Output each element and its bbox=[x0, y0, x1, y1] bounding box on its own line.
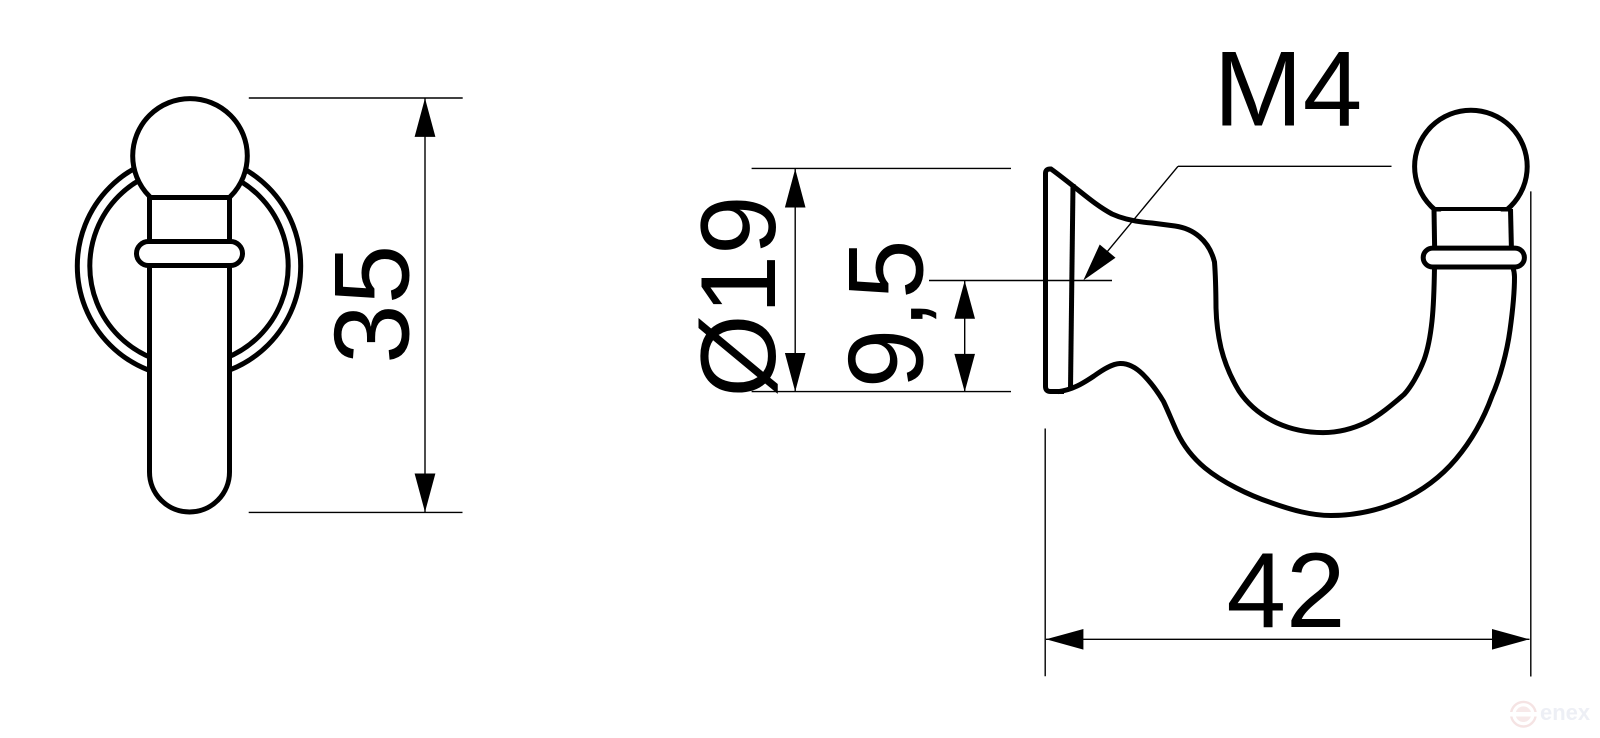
dim 9,5: dimension line bbox=[964, 281, 966, 392]
right view: ball-neck junction line bbox=[1434, 207, 1511, 211]
dim 9,5: axis extension line bbox=[929, 280, 1112, 282]
left view: plate outer circle bbox=[77, 154, 300, 377]
right view: neck erase patch bbox=[1429, 212, 1516, 247]
M4 leader: diagonal bbox=[1086, 166, 1178, 277]
dim 35: dimension line bbox=[424, 98, 426, 512]
dim 9,5: top arrow bbox=[954, 281, 975, 319]
right view: plate inner vertical line bbox=[1071, 184, 1074, 389]
dim 9,5: bottom arrow bbox=[954, 354, 975, 392]
M4 leader: arrowhead bbox=[1083, 245, 1115, 281]
left view: plate inner circle bbox=[90, 167, 288, 365]
right view: ball bbox=[1415, 110, 1528, 223]
svg-text:enex: enex bbox=[1540, 700, 1591, 725]
dim O19: bottom arrow bbox=[785, 353, 806, 392]
watermark: enex logo white bar bbox=[1506, 712, 1541, 717]
dim 35: bottom extension line bbox=[249, 511, 463, 513]
dim 35: bottom arrow bbox=[415, 474, 436, 513]
dim 42: left extension line bbox=[1044, 429, 1046, 677]
left view: ball bbox=[133, 99, 248, 214]
svg-text:Ø19: Ø19 bbox=[678, 195, 798, 397]
svg-text:9,5: 9,5 bbox=[825, 240, 945, 389]
right view: neck left line bbox=[1432, 209, 1438, 252]
dim 42: left arrow bbox=[1046, 629, 1083, 650]
M4 leader: horizontal shoulder bbox=[1178, 165, 1392, 167]
dim O19: dimension line bbox=[794, 169, 796, 392]
right view: hook top contour (plate face + top cap + neck + inner U) bbox=[1046, 169, 1435, 433]
watermark: enex logo circle bbox=[1511, 702, 1536, 727]
right view: neck right line bbox=[1511, 209, 1512, 252]
svg-text:M4: M4 bbox=[1214, 28, 1363, 148]
right view: collar bbox=[1423, 248, 1524, 267]
dim 42: right extension line bbox=[1530, 191, 1532, 676]
watermark: enex logo inner e bbox=[1516, 706, 1532, 722]
dim 35: top arrow bbox=[415, 98, 436, 137]
dim 42: dimension line bbox=[1046, 638, 1530, 640]
left view: collar bbox=[137, 242, 243, 266]
dim 42: right arrow bbox=[1492, 629, 1529, 650]
dim O19: top extension line bbox=[752, 167, 1011, 169]
dim O19+9,5: bottom extension line bbox=[752, 391, 1011, 393]
right view: hook bottom contour (bottom cap bump + outer U) bbox=[1058, 267, 1515, 516]
svg-text:35: 35 bbox=[312, 245, 432, 364]
svg-text:42: 42 bbox=[1226, 530, 1345, 650]
dim 35: top extension line bbox=[249, 97, 463, 99]
dim O19: top arrow bbox=[785, 169, 806, 208]
left view: rod bbox=[150, 198, 230, 513]
